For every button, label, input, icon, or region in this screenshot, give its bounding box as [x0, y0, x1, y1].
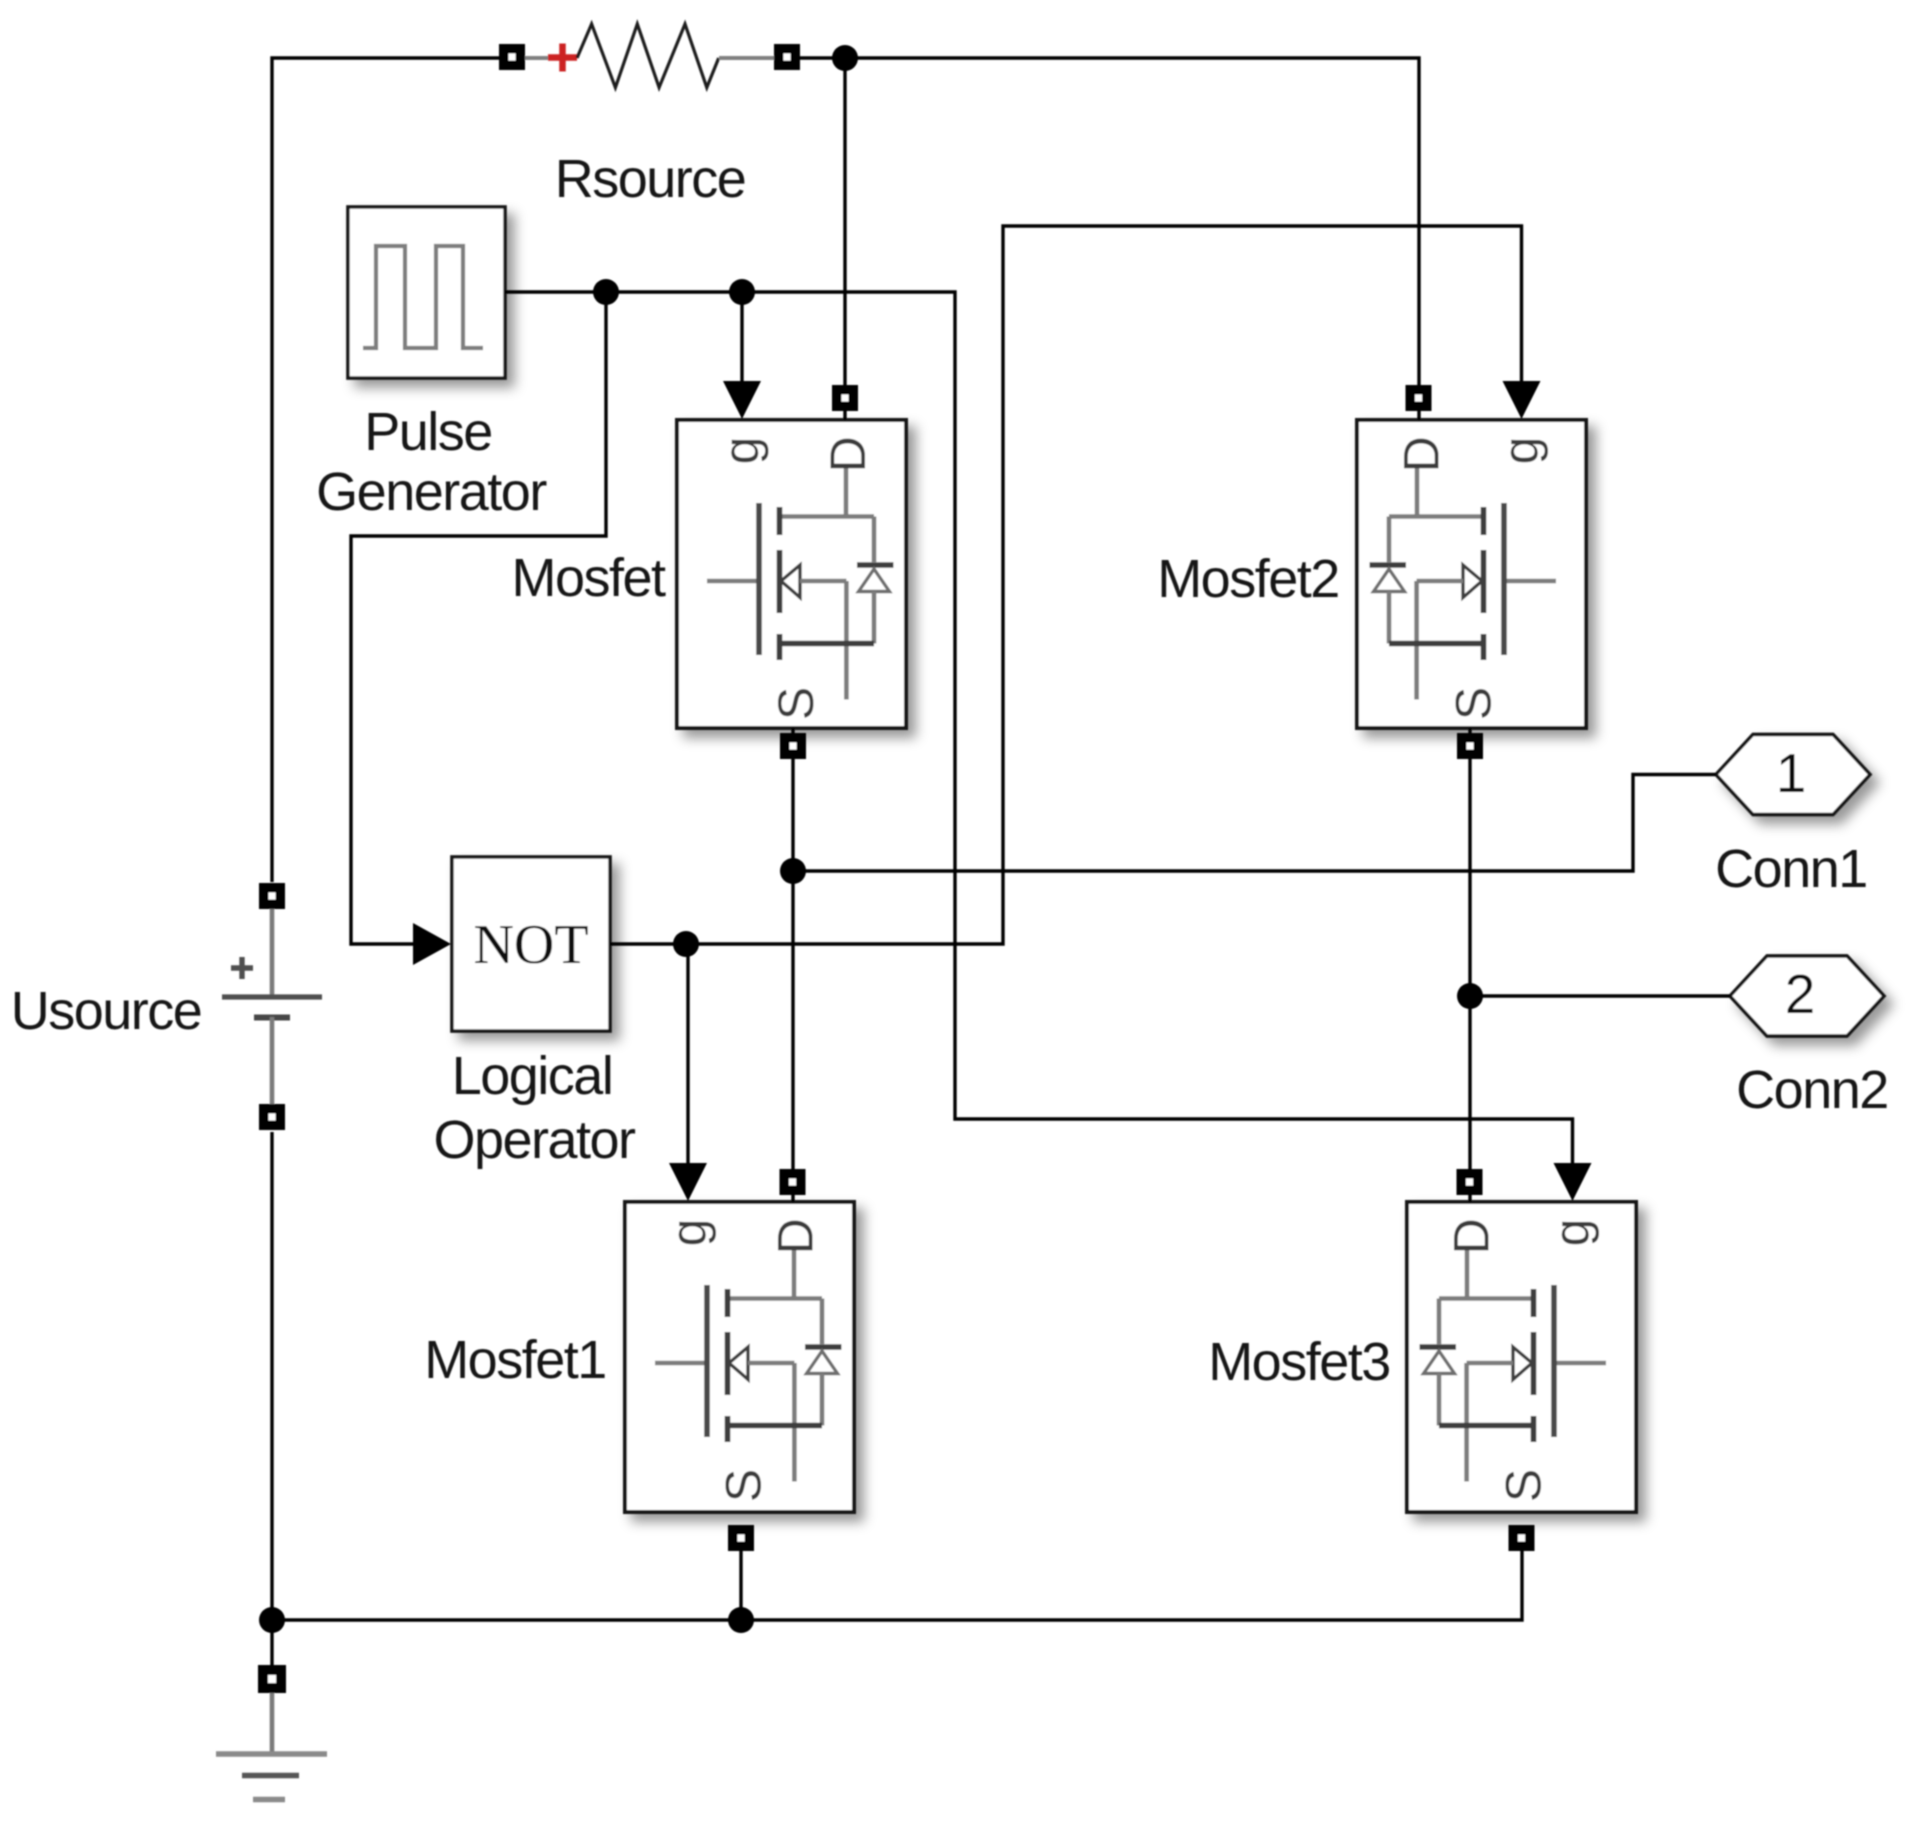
wire node B to Conn2: [1470, 994, 1730, 997]
pin label g of Mosfet: [713, 437, 769, 465]
ground symbol: [216, 1693, 327, 1800]
svg-text:1: 1: [1776, 742, 1807, 804]
svg-text:Logical: Logical: [452, 1046, 613, 1106]
label Mosfet1: [424, 1330, 606, 1390]
svg-text:D: D: [1444, 1218, 1500, 1254]
wire branch down to Mosfet1 g: [686, 944, 689, 1170]
svg-text:D: D: [820, 436, 876, 472]
wire Mosfet S down to Mosfet1 D: [791, 728, 794, 1202]
port square Mosfet1 S: [728, 1525, 754, 1551]
wire node A to Conn1: [793, 775, 1716, 872]
junction NOT output: [673, 931, 699, 957]
battery Usource: [222, 909, 322, 1104]
pin label g of Mosfet2: [1493, 437, 1549, 465]
label Logical Operator: [433, 1046, 636, 1170]
arrowhead into Mosfet1 g: [669, 1163, 707, 1201]
pin label S of Mosfet2: [1446, 687, 1502, 720]
pin label g of Mosfet3: [1544, 1219, 1600, 1247]
pin label D of Mosfet1: [768, 1218, 824, 1254]
resistor Rsource: [525, 24, 774, 88]
svg-text:NOT: NOT: [473, 914, 588, 976]
svg-text:Operator: Operator: [433, 1110, 636, 1170]
port square Mosfet2 S: [1457, 733, 1483, 759]
svg-text:Conn2: Conn2: [1736, 1060, 1888, 1120]
svg-text:S: S: [1496, 1469, 1552, 1502]
port square resistor left: [499, 44, 525, 70]
wire branch to NOT input: [351, 292, 606, 944]
pin label D of Mosfet3: [1444, 1218, 1500, 1254]
junction node A Mosfet S / Mosfet1 D: [780, 858, 806, 884]
pin label S of Mosfet: [768, 687, 824, 720]
junction bottom bus left: [259, 1607, 285, 1633]
wire Mosfet1 S to bottom bus: [739, 1551, 742, 1620]
svg-text:g: g: [713, 437, 769, 465]
port square Usource minus: [259, 1104, 285, 1130]
svg-text:Pulse: Pulse: [364, 402, 492, 462]
pin label g of Mosfet1: [661, 1219, 717, 1247]
wire from Rsource right to top-right corner down to Mosfet2 D: [800, 58, 1419, 420]
junction Pulse output node 2: [729, 279, 755, 305]
svg-text:Mosfet3: Mosfet3: [1208, 1332, 1390, 1392]
junction Pulse output node 1: [593, 279, 619, 305]
block Logical Operator NOT: [452, 857, 610, 1031]
wire Pulse Generator output to Mosfet3 g: [505, 292, 1573, 1170]
label Mosfet2: [1157, 549, 1339, 609]
port square Mosfet1 D: [780, 1169, 806, 1195]
wire from Usource plus up and right to Rsource: [272, 58, 499, 882]
svg-text:g: g: [1544, 1219, 1600, 1247]
port square Mosfet2 D: [1406, 385, 1432, 411]
label Conn1: [1715, 839, 1867, 899]
label Mosfet3: [1208, 1332, 1390, 1392]
svg-text:Generator: Generator: [316, 462, 547, 522]
svg-text:2: 2: [1785, 963, 1816, 1025]
block Pulse Generator: [348, 207, 505, 378]
svg-text:S: S: [768, 687, 824, 720]
wire Usource minus down to ground: [270, 1132, 273, 1665]
arrowhead into Mosfet3 g: [1554, 1163, 1592, 1201]
wire Mosfet2 S down to Mosfet3 D: [1468, 728, 1471, 1202]
svg-text:Mosfet: Mosfet: [511, 548, 666, 608]
junction bottom bus Mosfet1 S: [728, 1607, 754, 1633]
arrowhead into Mosfet2 g: [1503, 381, 1541, 419]
pin label D of Mosfet2: [1394, 436, 1450, 472]
svg-text:g: g: [1493, 437, 1549, 465]
connection port Conn1 hexagon: [1716, 735, 1870, 815]
label Mosfet: [511, 548, 666, 608]
wire branch down to Mosfet g: [740, 292, 743, 390]
port square resistor right: [774, 44, 800, 70]
pin label D of Mosfet: [820, 436, 876, 472]
port square Usource plus: [259, 883, 285, 909]
arrowhead into NOT input: [413, 923, 451, 965]
svg-text:D: D: [768, 1218, 824, 1254]
label Conn2: [1736, 1060, 1888, 1120]
arrowhead into Mosfet g: [723, 381, 761, 419]
svg-text:D: D: [1394, 436, 1450, 472]
svg-text:S: S: [716, 1469, 772, 1502]
junction top rail: [832, 45, 858, 71]
port square Mosfet3 S: [1509, 1525, 1535, 1551]
wire NOT output to Mosfet2 g: [610, 226, 1522, 944]
svg-text:g: g: [661, 1219, 717, 1247]
port square ground: [258, 1665, 286, 1693]
block body Mosfet3: [1407, 1202, 1636, 1512]
svg-text:Mosfet1: Mosfet1: [424, 1330, 606, 1390]
svg-text:Usource: Usource: [11, 981, 202, 1041]
svg-text:S: S: [1446, 687, 1502, 720]
svg-text:Mosfet2: Mosfet2: [1157, 549, 1339, 609]
block body Mosfet1: [625, 1202, 854, 1512]
svg-text:Rsource: Rsource: [555, 149, 746, 209]
block body Mosfet2: [1357, 420, 1586, 728]
block body Mosfet: [677, 420, 906, 728]
wire junction to Mosfet D: [843, 58, 846, 420]
port square Mosfet D: [832, 385, 858, 411]
pin label S of Mosfet3: [1496, 1469, 1552, 1502]
label Pulse Generator: [316, 402, 547, 522]
wire bottom bus: [272, 1551, 1522, 1620]
connection port Conn2 hexagon: [1730, 956, 1884, 1036]
label Usource: [11, 981, 202, 1041]
pin label S of Mosfet1: [716, 1469, 772, 1502]
port square Mosfet S: [780, 733, 806, 759]
label Rsource: [555, 149, 746, 209]
port square Mosfet3 D: [1457, 1169, 1483, 1195]
junction node B Mosfet2 S / Mosfet3 D: [1457, 983, 1483, 1009]
svg-text:Conn1: Conn1: [1715, 839, 1867, 899]
